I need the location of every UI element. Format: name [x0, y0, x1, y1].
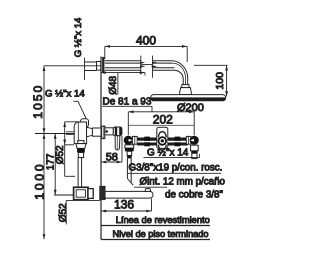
pipe break mark right — [152, 56, 158, 78]
dimension 202 — [128, 110, 194, 135]
left nipple with thread — [125, 145, 134, 159]
dimension 1050 — [31, 66, 45, 134]
svg-text:100: 100 — [214, 72, 226, 90]
svg-text:Ø52: Ø52 — [58, 203, 69, 222]
spout in-wall elbow — [74, 187, 94, 199]
label Oint 12mm — [134, 176, 226, 187]
dimension 400 — [105, 33, 187, 62]
node arm centerline reference — [44, 65, 101, 67]
svg-text:G ½"x 14: G ½"x 14 — [147, 147, 189, 158]
mixer front view top line — [128, 124, 194, 126]
dimension diameter 52 lower — [58, 200, 100, 224]
node spout centerline — [54, 194, 74, 196]
svg-text:1050: 1050 — [31, 84, 45, 119]
mixer front view left elbow — [124, 136, 137, 145]
svg-text:G3/8"x19 p/con. rosc.: G3/8"x19 p/con. rosc. — [129, 162, 223, 173]
mixer front view right pipe — [168, 137, 188, 147]
shower head disc — [151, 95, 226, 101]
valve lever stem — [105, 127, 122, 150]
svg-text:202: 202 — [153, 113, 173, 127]
dimension 100 — [194, 65, 228, 96]
check valve below elbow — [76, 141, 86, 158]
svg-text:Ø52: Ø52 — [55, 145, 66, 164]
wall — [100, 57, 102, 240]
pipe break mark left — [140, 56, 146, 75]
right nipple with thread — [191, 145, 199, 158]
valve rosette at wall — [101, 126, 104, 138]
label G 1/2 x 14 top vertical — [73, 17, 85, 80]
svg-text:De 81 a 93: De 81 a 93 — [103, 97, 152, 108]
spout rosette — [100, 186, 105, 199]
svg-text:Ø48: Ø48 — [108, 75, 119, 94]
dimension 1000 — [33, 134, 47, 240]
mixer front view body — [157, 127, 168, 150]
copper tail pipe below left nipple — [127, 158, 133, 185]
svg-text:de cobre 3/8": de cobre 3/8" — [165, 189, 223, 200]
shower arm tube — [105, 61, 188, 88]
shower head connector nut — [182, 85, 189, 88]
dimension 136 — [101, 197, 152, 212]
label G 1/2 x 14 left — [45, 88, 86, 119]
dimension 58 — [101, 136, 122, 163]
spout tube — [105, 189, 153, 199]
svg-text:400: 400 — [136, 33, 156, 47]
svg-text:G ½"x 14: G ½"x 14 — [73, 17, 84, 57]
mixer front view right elbow — [186, 136, 198, 145]
linea de revestimiento line — [101, 225, 210, 227]
valve sleeve to wall — [92, 128, 101, 136]
dimension De 81 a 93 — [101, 71, 153, 112]
mixer front view left pipe — [137, 137, 157, 147]
dimension diameter 48 — [108, 73, 119, 95]
pipe stub in wall at arm — [85, 62, 101, 71]
dimension 177 — [46, 134, 57, 196]
svg-text:Øint. 12 mm p/caño: Øint. 12 mm p/caño — [140, 176, 226, 187]
node valve centerline — [35, 133, 74, 135]
svg-text:Línea de revestimiento: Línea de revestimiento — [116, 215, 210, 225]
copper pipe to spout — [78, 158, 82, 188]
label G 1/2 x 14 front — [144, 147, 200, 158]
valve side view elbow body — [66, 119, 92, 144]
arm escutcheon — [102, 57, 104, 73]
svg-text:136: 136 — [114, 197, 134, 211]
svg-text:Nivel de piso terminado: Nivel de piso terminado — [113, 229, 209, 239]
label G3/8 x19 — [127, 162, 222, 173]
nivel de piso line — [101, 239, 210, 241]
svg-text:1000: 1000 — [33, 162, 47, 200]
svg-text:58: 58 — [106, 151, 118, 163]
dimension diameter 52 upper — [55, 122, 82, 177]
svg-text:G ½"x 14: G ½"x 14 — [45, 88, 85, 99]
